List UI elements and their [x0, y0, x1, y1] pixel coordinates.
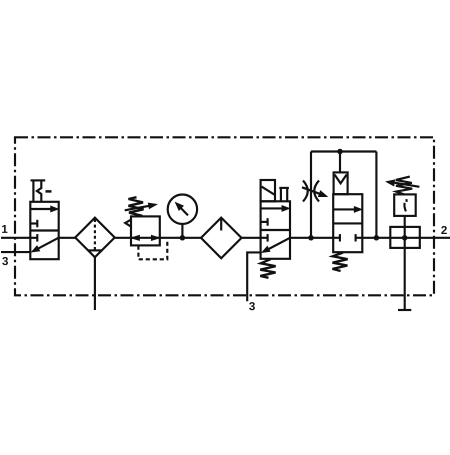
- R1 adjustable spring: [129, 197, 144, 216]
- wire port 3: [1, 251, 30, 253]
- check valve CV1: [334, 172, 348, 194]
- V2 blocked port T (bottom box): [261, 234, 268, 242]
- wire port 1: [1, 237, 30, 239]
- pressure regulator R1 body: [131, 216, 160, 245]
- soft-start valve V3 body: [333, 194, 362, 252]
- V3 return spring: [333, 253, 348, 271]
- F1 drain line: [94, 257, 96, 310]
- port 3 label (pilot valve exhaust): [249, 302, 255, 310]
- R1 adjustment arrow: [125, 203, 157, 210]
- PS1 vent bar: [398, 309, 411, 311]
- V2 top box flow arrow: [261, 206, 290, 212]
- V1 minus sign: [46, 190, 52, 193]
- V2 return spring: [260, 259, 275, 278]
- filter with water separator F1: [75, 218, 115, 258]
- junction dot top branch: [338, 149, 343, 154]
- lubricator L1: [201, 218, 242, 259]
- G1 stem: [181, 224, 183, 238]
- PS1 adjustment arrow: [386, 180, 419, 187]
- PS1 signal riser: [404, 216, 406, 310]
- V1 manual slide actuator with detent: [31, 180, 46, 201]
- junction dot at gauge: [180, 236, 185, 241]
- enclosure dash-dot border: [15, 137, 434, 295]
- V2 exhaust diagonal arrow: [262, 238, 290, 253]
- wire V3 to pressure switch and port 2: [362, 237, 450, 239]
- wire restrictor riser: [310, 152, 312, 238]
- R1 left flow arrowhead: [131, 235, 139, 240]
- V2 blocked port T (top box): [261, 218, 268, 226]
- wire V2 to soft-start valve: [290, 237, 333, 239]
- pilot valve V2 body: [261, 201, 290, 258]
- R1 right flow arrowhead: [151, 235, 159, 240]
- PS1 adjustable spring: [396, 177, 412, 195]
- V3 top box flow arrow: [333, 207, 362, 213]
- V2 exhaust wire to port 3: [247, 252, 260, 301]
- pressure switch PS1 sensing body: [390, 227, 420, 248]
- on-off valve V1 body: [30, 202, 58, 259]
- port 1 label: [2, 225, 7, 233]
- V1 exhaust diagonal arrow: [32, 238, 59, 252]
- port 2 label: [441, 226, 447, 234]
- port 3 label: [2, 257, 8, 265]
- junction dot restrictor branch: [309, 236, 314, 241]
- junction dot right riser: [374, 236, 379, 241]
- V1 blocked port T (top box): [30, 220, 37, 228]
- R1 relief vent triangle: [125, 220, 131, 227]
- PS1 switch contact box: [394, 194, 416, 216]
- V3 blocked port T (left): [333, 234, 340, 241]
- wire top branch: [311, 150, 376, 152]
- V3 blocked port T (right): [356, 234, 363, 241]
- wire lubricator to pilot valve: [242, 237, 261, 239]
- R1 dashed pilot feedback line: [138, 239, 167, 259]
- adjustable flow restrictor FR1: [302, 181, 327, 202]
- V1 top box flow arrow: [30, 206, 58, 212]
- junction dot in sensing body: [402, 236, 407, 241]
- pressure gauge G1: [168, 195, 197, 224]
- wire right riser: [375, 152, 377, 238]
- wire check valve drop: [339, 152, 341, 173]
- wire filter to regulator and through to lubricator: [115, 237, 201, 239]
- wire V1 to filter: [59, 237, 75, 239]
- V1 blocked port T (bottom box): [30, 234, 37, 242]
- V2 solenoid coil: [261, 180, 275, 201]
- V2 manual override button: [279, 188, 289, 201]
